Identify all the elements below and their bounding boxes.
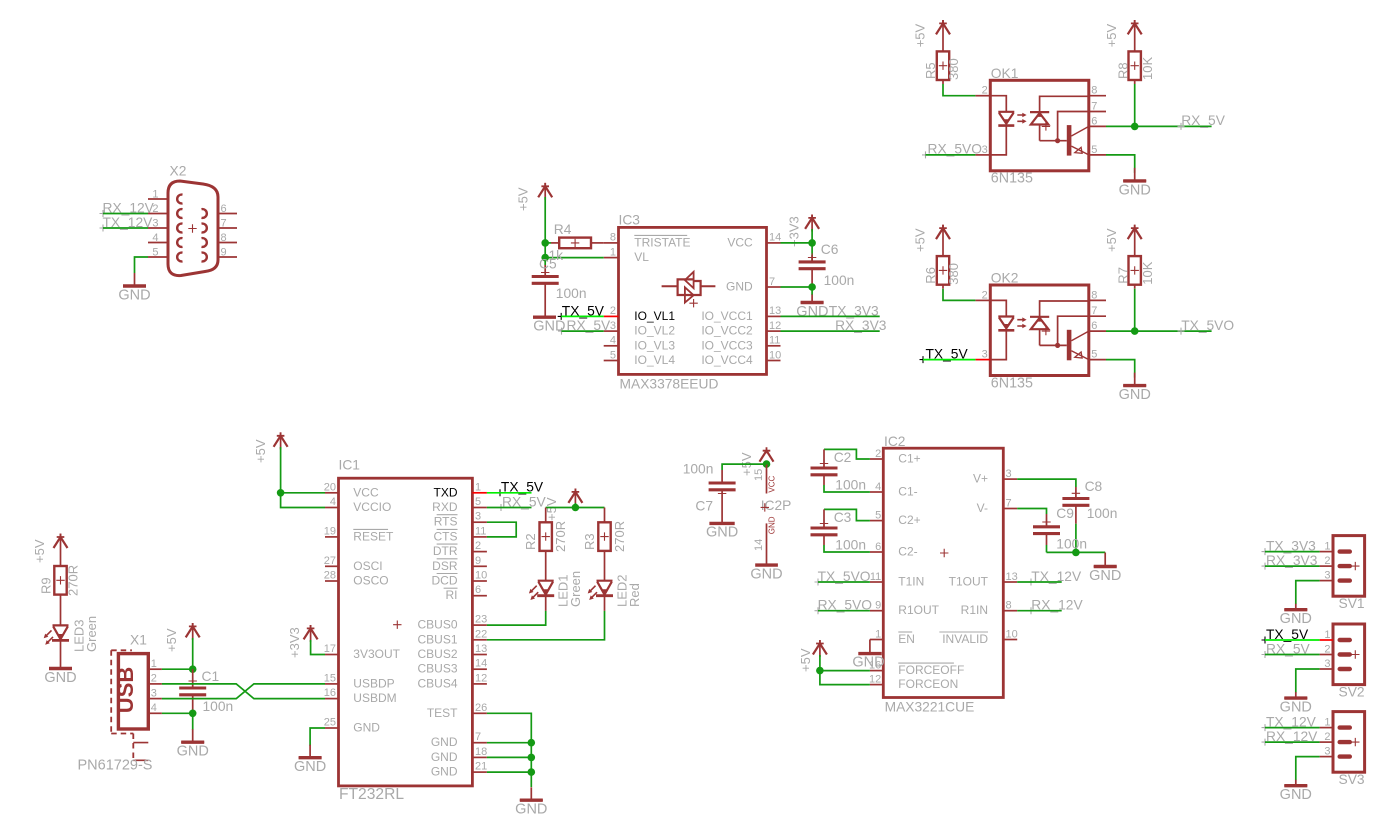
- svg-text:1: 1: [875, 628, 881, 640]
- IC3 pin 8 TRISTATE: [604, 242, 619, 244]
- svg-text:R1IN: R1IN: [961, 603, 988, 617]
- svg-text:VL: VL: [634, 250, 649, 264]
- wire R7 to output net: [1134, 285, 1136, 289]
- svg-text:7: 7: [1091, 305, 1097, 317]
- svg-text:100n: 100n: [556, 286, 587, 301]
- svg-text:C5: C5: [539, 257, 557, 272]
- connector X2 body: [168, 181, 218, 276]
- ground symbol at X1: [181, 729, 204, 742]
- IC2 pin 4 C1-: [870, 491, 883, 493]
- IC2 pin 9 R1OUT: [870, 610, 883, 612]
- svg-text:MAX3221CUE: MAX3221CUE: [885, 700, 975, 715]
- svg-text:+5V: +5V: [1104, 228, 1119, 252]
- IC1 origin cross: [393, 621, 401, 629]
- svg-text:X2: X2: [170, 164, 187, 179]
- svg-text:3: 3: [1324, 569, 1330, 581]
- wire GND pin 25 to ground: [310, 728, 325, 746]
- svg-text:15: 15: [753, 469, 765, 481]
- junction at GND pin: [808, 283, 816, 291]
- wire SV3 pin 3 to ground: [1296, 757, 1320, 781]
- IC1 pin 15 USBDP: [325, 683, 339, 685]
- svg-text:2: 2: [475, 540, 481, 552]
- wire TX_12V to X2 pin 3: [103, 227, 148, 229]
- IC1 pin 16 USBDM: [325, 698, 339, 700]
- ground symbol at OK1: [1123, 168, 1146, 181]
- junction GND 21: [528, 768, 536, 776]
- resistor R9: [60, 534, 62, 566]
- svg-text:C7: C7: [695, 499, 713, 514]
- SV1 pin 3 pad: [1338, 578, 1353, 582]
- IC1 pin 10 DCD: [472, 580, 487, 582]
- wire RX_3V3 to SV1 pin 2: [1265, 565, 1320, 567]
- svg-text:20: 20: [324, 481, 336, 493]
- IC1 pin 22 CBUS1: [472, 639, 487, 641]
- svg-text:4: 4: [151, 702, 157, 714]
- ground symbol at IC2P: [755, 563, 778, 566]
- OK1 photodiode: [1040, 96, 1089, 112]
- svg-text:USBDM: USBDM: [353, 691, 396, 705]
- LED LED1: [545, 551, 547, 581]
- svg-text:380: 380: [946, 58, 961, 80]
- optocoupler OK1 body: [990, 80, 1089, 171]
- OK1 pin 7: [1089, 111, 1106, 113]
- svg-text:9: 9: [475, 555, 481, 567]
- power +3V3 arrow at IC1: [307, 625, 315, 631]
- svg-text:R3: R3: [582, 533, 597, 550]
- svg-text:14: 14: [769, 232, 781, 244]
- ground symbol at X2: [123, 273, 146, 286]
- OK2 base wire and junction: [1040, 344, 1067, 346]
- SV3 pin 1 pad: [1338, 725, 1353, 729]
- svg-text:100n: 100n: [1087, 506, 1118, 521]
- OK2 pin 5: [1089, 359, 1106, 361]
- svg-text:T1OUT: T1OUT: [949, 575, 989, 589]
- svg-text:2: 2: [982, 85, 988, 97]
- svg-text:GND: GND: [44, 670, 76, 686]
- wire TX_5V to SV2 pin 1 (highlighted): [1265, 639, 1320, 641]
- svg-text:CTS: CTS: [434, 529, 458, 543]
- svg-text:CBUS2: CBUS2: [417, 647, 457, 661]
- resistor R5: [942, 20, 944, 51]
- svg-text:OK2: OK2: [991, 271, 1019, 286]
- IC1 pin 6 RI: [472, 595, 487, 597]
- IC2 pin 3 V+: [1003, 478, 1017, 480]
- svg-text:2: 2: [1324, 643, 1330, 655]
- wire TX_5V to IC3 pin 2 (highlighted): [561, 315, 604, 317]
- svg-text:17: 17: [324, 643, 336, 655]
- wire R1IN RX_12V: [1017, 610, 1061, 612]
- svg-text:DCD: DCD: [432, 574, 458, 588]
- wire LED1 to CBUS0: [545, 596, 547, 611]
- X2 pin 7: [218, 227, 237, 229]
- SV2 origin cross: [1351, 650, 1359, 658]
- svg-text:+5V: +5V: [32, 539, 47, 563]
- svg-text:RTS: RTS: [434, 515, 458, 529]
- ground symbol at IC1 pin 25: [299, 745, 322, 758]
- svg-text:7: 7: [475, 731, 481, 743]
- svg-text:GND: GND: [118, 287, 150, 303]
- wire LED2 to CBUS1: [604, 596, 606, 611]
- IC2 pin 10 INVALID: [1003, 639, 1017, 641]
- svg-text:270R: 270R: [66, 565, 81, 596]
- svg-text:C3: C3: [834, 510, 852, 525]
- SV3 origin cross: [1351, 738, 1359, 746]
- SV1 pin 2 pad: [1338, 564, 1353, 568]
- wire OK2 pin 5 to ground: [1106, 360, 1135, 378]
- X2 pin 5: [148, 256, 168, 258]
- svg-text:9: 9: [221, 247, 227, 259]
- IC2 pin 12 FORCEON: [870, 684, 883, 686]
- svg-text:CBUS1: CBUS1: [417, 632, 457, 646]
- svg-text:VCC: VCC: [768, 475, 777, 492]
- svg-text:C2+: C2+: [898, 513, 920, 527]
- IC3 pin 10 IO_VCC4: [767, 360, 781, 362]
- ground symbol at EN pin: [869, 640, 871, 654]
- wire OK1 pin 5 to ground: [1106, 155, 1135, 173]
- X2 pin 9: [218, 256, 237, 258]
- power +5V arrow at R5: [939, 20, 947, 26]
- svg-text:5: 5: [610, 349, 616, 361]
- IC2 pin 8 R1IN: [1003, 610, 1017, 612]
- IC1 pin 20 VCC: [325, 492, 339, 494]
- IC1 pin 23 CBUS0: [472, 624, 487, 626]
- SV2 pin 3 pad: [1338, 667, 1353, 671]
- IC3 pin 1 VL: [604, 257, 619, 259]
- resistor R3: [604, 508, 606, 523]
- svg-text:2: 2: [610, 305, 616, 317]
- X1 pin 3: [148, 698, 162, 700]
- connector X1 body: [118, 654, 148, 729]
- resistor R2: [545, 508, 547, 523]
- wire GND pin 7: [487, 742, 531, 744]
- svg-text:IO_VL4: IO_VL4: [634, 353, 675, 367]
- svg-text:4: 4: [152, 232, 158, 244]
- svg-text:8: 8: [1006, 600, 1012, 612]
- X2 pin 3: [148, 227, 168, 229]
- IC2 pin 13 T1OUT: [1003, 581, 1017, 583]
- OK2 pin 6: [1089, 330, 1106, 332]
- X1 pin 4: [148, 712, 162, 714]
- svg-text:MAX3378EEUD: MAX3378EEUD: [620, 377, 719, 392]
- OK2 origin cross: [1042, 327, 1050, 335]
- svg-text:CBUS0: CBUS0: [417, 618, 457, 632]
- svg-text:GND: GND: [796, 304, 828, 320]
- IC1 pin 1 TXD (highlighted): [472, 492, 487, 494]
- OK2 photodiode: [1040, 301, 1089, 317]
- svg-text:3: 3: [475, 511, 481, 523]
- capacitor C5: [544, 265, 546, 277]
- wire junction to ground: [811, 287, 813, 295]
- wire RXD RX_5V: [487, 507, 532, 509]
- wire +5V rail to R2 R3: [574, 489, 576, 506]
- svg-text:7: 7: [1006, 497, 1012, 509]
- IC1 pin 26 TEST: [472, 712, 487, 714]
- svg-text:CBUS3: CBUS3: [417, 662, 457, 676]
- ground symbol at SV2: [1284, 692, 1307, 698]
- svg-text:8: 8: [221, 232, 227, 244]
- IC1 pin 11 CTS: [472, 536, 487, 538]
- LED LED2: [604, 551, 606, 581]
- wire VL junction to IC3 pin 1: [545, 257, 604, 259]
- svg-text:R7: R7: [1116, 267, 1131, 284]
- svg-text:10K: 10K: [1140, 261, 1155, 284]
- OK1 pin 8: [1089, 95, 1106, 97]
- svg-text:C1-: C1-: [898, 485, 917, 499]
- OK1 pin 6: [1089, 125, 1106, 127]
- wire RTS to CTS loopback: [487, 522, 516, 537]
- IC1 pin 4 VCCIO: [325, 507, 339, 509]
- IC1 pin 27 OSCI: [325, 565, 339, 567]
- svg-text:GND: GND: [294, 759, 326, 775]
- wire T1OUT TX_12V: [1017, 581, 1061, 583]
- svg-text:18: 18: [475, 746, 487, 758]
- power +5V arrow at IC2P: [763, 447, 771, 453]
- IC2P pin 15 VCC: [766, 464, 768, 493]
- X1 dashed outline: [111, 650, 133, 760]
- svg-text:RI: RI: [446, 588, 458, 602]
- ground symbol at IC2 caps: [1094, 553, 1117, 567]
- svg-text:3: 3: [152, 218, 158, 230]
- svg-text:25: 25: [324, 717, 336, 729]
- IC1 pin 13 CBUS2: [472, 654, 487, 656]
- svg-text:7: 7: [769, 276, 775, 288]
- svg-text:100n: 100n: [683, 462, 714, 477]
- svg-text:FORCEON: FORCEON: [898, 677, 958, 691]
- wire USB D+ crossover: [162, 684, 325, 699]
- wire TX_5V to OK2 pin 3 (highlighted): [923, 359, 975, 361]
- wire X2 pin 5 to ground: [135, 257, 149, 273]
- OK1 light arrows: [1017, 115, 1023, 121]
- wire RX_12V to X2 pin 2: [103, 213, 148, 215]
- svg-text:R4: R4: [554, 222, 572, 237]
- X2 pin 2: [148, 213, 168, 215]
- wire +3V3 to 3V3OUT: [310, 625, 312, 642]
- svg-text:C9: C9: [1056, 506, 1074, 521]
- svg-text:5: 5: [1091, 349, 1097, 361]
- svg-text:3: 3: [982, 144, 988, 156]
- svg-text:TX_5VO: TX_5VO: [1181, 318, 1234, 333]
- wire IC3 pin 12 RX_3V3: [781, 330, 880, 332]
- IC2 pin 7 V-: [1003, 508, 1017, 510]
- svg-text:6: 6: [875, 541, 881, 553]
- connector SV1 body: [1333, 536, 1365, 597]
- OK2 light arrows: [1017, 320, 1023, 326]
- svg-text:4: 4: [610, 335, 616, 347]
- svg-text:3: 3: [1006, 468, 1012, 480]
- svg-text:USBDP: USBDP: [353, 676, 394, 690]
- junction at VCC: [277, 489, 285, 497]
- svg-text:R1OUT: R1OUT: [898, 603, 939, 617]
- svg-text:V-: V-: [977, 501, 988, 515]
- svg-text:27: 27: [324, 555, 336, 567]
- svg-text:FT232RL: FT232RL: [339, 786, 404, 803]
- svg-text:6N135: 6N135: [991, 171, 1033, 187]
- svg-text:GND: GND: [726, 280, 753, 294]
- svg-text:IC1: IC1: [339, 458, 360, 473]
- svg-text:IO_VL3: IO_VL3: [634, 338, 675, 352]
- svg-text:FORCEOFF: FORCEOFF: [898, 663, 964, 677]
- OK2 pin 7: [1089, 315, 1106, 317]
- OK1 pin 3: [975, 154, 990, 156]
- SV3 pin 2 pad: [1338, 740, 1353, 744]
- svg-text:10K: 10K: [1140, 57, 1155, 80]
- svg-text:GND: GND: [768, 516, 777, 534]
- svg-text:4: 4: [330, 496, 336, 508]
- LED LED3: [60, 595, 62, 626]
- capacitor C8: [1017, 479, 1076, 487]
- connector SV2 body: [1333, 624, 1365, 685]
- svg-text:X1: X1: [130, 633, 147, 648]
- wire +5V to VCC/VCCIO: [280, 432, 282, 449]
- wire SV2 pin 3 to ground: [1296, 669, 1320, 693]
- power +5V arrow at IC3: [541, 183, 549, 189]
- IC3 pin 12 IO_VCC2: [767, 330, 781, 332]
- svg-text:+5V: +5V: [1104, 23, 1119, 47]
- svg-text:13: 13: [475, 643, 487, 655]
- svg-text:28: 28: [324, 570, 336, 582]
- svg-text:VCCIO: VCCIO: [353, 500, 391, 514]
- IC3 origin cross: [689, 299, 697, 307]
- junction at cap ground: [1072, 549, 1080, 557]
- svg-text:PN61729-S: PN61729-S: [78, 758, 153, 774]
- junction at VCC: [808, 239, 816, 247]
- svg-text:T1IN: T1IN: [898, 575, 924, 589]
- junction GND 7: [528, 739, 536, 747]
- svg-text:GND: GND: [431, 765, 458, 779]
- SV1 origin cross: [1351, 562, 1359, 570]
- junction at OK2 output: [1131, 327, 1139, 335]
- svg-text:R8: R8: [1116, 62, 1131, 79]
- X1 shield tabs: [133, 743, 148, 761]
- OK1 pin 5: [1089, 154, 1106, 156]
- svg-text:GND: GND: [515, 802, 547, 818]
- svg-text:5: 5: [875, 509, 881, 521]
- IC2 origin cross: [940, 549, 948, 557]
- X2 pin 4: [148, 242, 168, 244]
- IC3 level-shifter icon: [662, 285, 716, 287]
- wire TEST to ground bus: [487, 713, 531, 742]
- power +5V arrow at R6: [939, 225, 947, 231]
- ground symbol below C5: [533, 316, 556, 318]
- wire R1OUT RX_5VO: [818, 610, 870, 612]
- IC3 pin 11 IO_VCC3: [767, 345, 781, 347]
- svg-text:3: 3: [982, 349, 988, 361]
- IC2 pin 2 C1+: [870, 458, 883, 460]
- IC1 pin 19 RESET: [325, 536, 339, 538]
- svg-text:GND: GND: [431, 735, 458, 749]
- IC IC2 body: [883, 448, 1003, 697]
- X1 pin 1: [148, 668, 162, 670]
- svg-text:26: 26: [475, 702, 487, 714]
- svg-text:6: 6: [475, 584, 481, 596]
- svg-text:1: 1: [1324, 540, 1330, 552]
- wire GND pin 21: [487, 771, 531, 773]
- svg-text:TXD: TXD: [434, 485, 458, 499]
- svg-text:1: 1: [1324, 716, 1330, 728]
- svg-text:12: 12: [869, 673, 881, 685]
- power +5V arrow at R2/R3: [572, 489, 580, 495]
- ground symbol at SV3: [1284, 780, 1307, 786]
- wire V+/V- caps to ground: [1047, 551, 1106, 553]
- IC1 pin 12 CBUS4: [472, 683, 487, 685]
- svg-text:Green: Green: [84, 616, 99, 652]
- SV2 pin 1 pad: [1338, 638, 1353, 642]
- svg-text:+5V: +5V: [798, 648, 813, 672]
- junction GND 18: [528, 754, 536, 762]
- OK1 internal LED: [990, 96, 1006, 112]
- svg-text:GND: GND: [706, 524, 738, 540]
- svg-text:IO_VL1: IO_VL1: [634, 309, 675, 323]
- svg-text:100n: 100n: [835, 478, 866, 493]
- svg-text:12: 12: [769, 320, 781, 332]
- svg-text:1: 1: [1324, 629, 1330, 641]
- OK2 pin 3 (highlighted): [975, 359, 990, 361]
- IC2 pin 1 EN: [870, 639, 883, 641]
- IC IC3 body: [619, 227, 767, 374]
- OK2 internal LED: [990, 300, 1006, 316]
- svg-text:SV2: SV2: [1339, 684, 1365, 699]
- svg-text:7: 7: [1091, 101, 1097, 113]
- connector SV3 body: [1333, 712, 1365, 773]
- svg-text:SV1: SV1: [1339, 596, 1365, 611]
- IC1 pin 5 RXD: [472, 507, 487, 509]
- svg-text:C1: C1: [202, 669, 220, 684]
- IC1 pin 14 CBUS3: [472, 668, 487, 670]
- svg-text:+5V: +5V: [913, 23, 928, 47]
- svg-text:2: 2: [1324, 555, 1330, 567]
- svg-text:15: 15: [324, 672, 336, 684]
- svg-text:3: 3: [1324, 745, 1330, 757]
- wire TX_3V3 to SV1 pin 1: [1265, 551, 1320, 553]
- ground symbol at C7: [709, 522, 734, 525]
- svg-text:SV3: SV3: [1339, 772, 1365, 787]
- svg-text:13: 13: [1006, 571, 1018, 583]
- svg-text:R6: R6: [923, 267, 938, 284]
- capacitor C1: [192, 669, 194, 688]
- power +5V arrow at R9: [57, 534, 65, 540]
- OK2 phototransistor: [1067, 330, 1072, 361]
- svg-text:OSCI: OSCI: [353, 559, 382, 573]
- IC1 pin 7 GND: [472, 742, 487, 744]
- wire R6 to OK2 pin 2: [942, 285, 944, 289]
- svg-text:5: 5: [152, 247, 158, 259]
- wire R5 to OK1 pin 2: [942, 80, 944, 84]
- svg-text:IC3: IC3: [619, 213, 641, 228]
- svg-text:IO_VCC2: IO_VCC2: [701, 324, 753, 338]
- svg-text:100n: 100n: [1056, 537, 1087, 552]
- wire TXD TX_5V (highlighted): [487, 492, 532, 494]
- svg-text:3: 3: [1324, 658, 1330, 670]
- svg-text:10: 10: [769, 349, 781, 361]
- wire ground bus down: [530, 743, 532, 787]
- IC1 pin 17 3V3OUT: [325, 654, 339, 656]
- svg-text:IO_VCC1: IO_VCC1: [701, 309, 753, 323]
- svg-text:Red: Red: [627, 583, 642, 607]
- svg-text:8: 8: [1091, 85, 1097, 97]
- svg-text:12: 12: [475, 672, 487, 684]
- svg-text:270R: 270R: [612, 521, 627, 552]
- svg-text:GND: GND: [431, 750, 458, 764]
- resistor R4: [559, 238, 591, 249]
- wire IC2P VCC to C7: [722, 464, 766, 470]
- OK1 phototransistor: [1067, 125, 1072, 156]
- svg-text:OSCO: OSCO: [353, 574, 388, 588]
- svg-text:USB: USB: [113, 667, 138, 713]
- IC3 pin 4 IO_VL3: [604, 345, 619, 347]
- svg-text:GND: GND: [1089, 568, 1121, 584]
- ground symbol at OK2: [1123, 373, 1146, 386]
- IC1 pin 28 OSCO: [325, 580, 339, 582]
